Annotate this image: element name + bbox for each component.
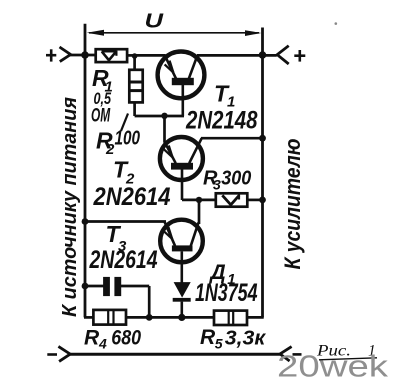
label T2 2N2614 [93,157,171,212]
wire: node down to T2 emitter [163,116,166,143]
label U [145,11,164,33]
terminal + (top left) [46,47,71,62]
node after R1 [132,53,138,59]
terminal + (top right) [277,46,305,64]
wire: left rail to T3 emitter [85,220,166,223]
label К источнику питания [59,97,81,317]
label R4 680 [84,326,141,351]
left rail wire [84,24,87,318]
dimension line U [87,30,261,36]
label T3 2N2614 [89,221,158,274]
resistor R5 [214,311,247,325]
wire: R1 to node [127,54,136,57]
node: T2 emitter branch [161,113,167,119]
capacitor C [103,277,121,296]
terminal - (bottom left) [47,346,70,361]
node: rail / top wire junction [81,51,89,59]
speck [335,22,338,25]
transistor T1 [158,52,205,117]
wire: R2 bottom to T1 base [135,102,184,116]
svg-text:R: R [84,326,100,349]
svg-text:5: 5 [215,336,223,352]
svg-text:R: R [200,326,216,349]
svg-text:2: 2 [105,141,115,158]
terminal - (bottom right) [280,347,302,361]
svg-text:20wek: 20wek [277,350,389,384]
svg-text:2N2614: 2N2614 [93,183,171,211]
svg-text:2N2614: 2N2614 [89,246,158,274]
resistor R4 [93,310,126,325]
wire: bottom middle [126,316,214,319]
label R2 100 with callout [96,114,140,159]
svg-text:ОМ: ОМ [91,105,111,126]
svg-text:680: 680 [111,327,141,350]
svg-text:1N3754: 1N3754 [195,279,258,307]
svg-text:100: 100 [115,127,141,149]
node: right rail / R3 [259,197,266,204]
svg-text:2N2148: 2N2148 [185,107,257,135]
wire: node down to T3 collector [198,200,201,224]
svg-text:300: 300 [221,168,251,190]
bottom wire (minus line) [70,353,280,356]
node: left rail / T3 emitter [82,218,89,225]
node: right rail / T2 collector [259,135,266,142]
wire: T1 collector to right rail [197,54,277,57]
wire: capacitor to bottom wire [121,286,149,317]
wire: left terminal to rail [70,54,97,57]
watermark 20wek [277,350,389,384]
label R3 300 [203,168,251,193]
node: capacitor junction [146,314,153,321]
resistor R3 [216,193,248,206]
wire: T2 collector to right rail [201,137,263,140]
resistor R1 [96,49,127,62]
svg-text:4: 4 [98,336,107,352]
label К усилителю [280,139,305,270]
wire: bottom right [247,316,264,319]
svg-text:К источнику питания: К источнику питания [59,97,81,317]
label Рис. 1 [316,343,377,360]
transistor T2 [160,137,203,200]
right rail wire [261,28,264,318]
label T1 2N2148 [185,80,257,134]
wire: node to T1 emitter [135,54,166,57]
transistor T3 [160,220,203,283]
svg-text:U: U [145,11,164,33]
node: T3 collector branch [196,197,202,203]
wire: rail to capacitor [85,285,104,288]
node: diode junction [178,314,185,321]
wire: node down to R2 [133,56,136,71]
svg-text:3,3к: 3,3к [225,328,266,350]
label Д1 1N3754 [195,261,258,307]
node: left rail / capacitor [82,283,89,290]
svg-text:К усилителю: К усилителю [280,139,305,270]
wire: bottom left [84,316,94,319]
wire: R3 to right rail [247,199,262,202]
resistor R2 [129,70,142,103]
svg-text:3: 3 [213,177,221,193]
label R5 3,3к [200,326,266,352]
diode D1 [173,282,191,317]
node: right rail / top wire [259,51,267,59]
wire: T2 base to R3 [182,199,216,202]
label R1 0,5 ОМ [91,65,113,126]
